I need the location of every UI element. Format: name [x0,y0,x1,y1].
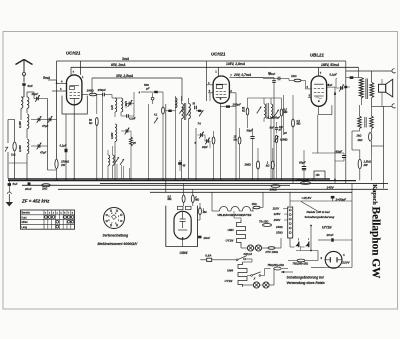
tube1 cathode lead [73,99,75,179]
wire [7,120,9,144]
resistor 25k osc [130,137,133,146]
coil mixer grid [175,98,177,108]
svg-text:100pF: 100pF [273,117,280,120]
wire right return [383,106,385,188]
resistor 2M eye [191,195,194,203]
lamp alt 2 [263,282,269,288]
svg-text:60µF: 60µF [336,149,343,153]
trimmer IF I a [179,107,183,113]
wire rail D [22,184,290,186]
wire [21,96,24,98]
heater meander upper [237,220,246,246]
wire [181,96,183,104]
wire [152,93,154,97]
svg-text:0,5MΩ: 0,5MΩ [280,139,288,142]
capacitor tone blob [344,86,347,88]
svg-text:0,1µF: 0,1µF [330,72,338,76]
voltage selector strip [288,207,293,238]
IF transformer II winding A [264,104,266,118]
svg-text:kΩ: kΩ [89,122,92,125]
wire [183,183,185,195]
resistor NTC heater [268,247,275,250]
resistor mains dropper [297,259,305,262]
svg-text:UBL21/UCH21/UCH21/UY1N: UBL21/UCH21/UCH21/UY1N [218,213,252,217]
capacitor 150pF [102,93,104,97]
svg-text:0,1µF: 0,1µF [60,144,67,148]
svg-text:105V, 2,8mA: 105V, 2,8mA [226,62,246,66]
svg-text:Meßinstrument 6000Ω/V: Meßinstrument 6000Ω/V [98,242,139,246]
svg-text:5nF: 5nF [28,84,34,88]
wire anode feed [56,61,58,159]
wire [247,98,249,108]
resistor 75+15 [263,224,272,227]
svg-text:2W: 2W [363,163,368,167]
output transformer primary [359,78,363,99]
wire rail 20V [236,77,263,79]
wire [288,260,297,262]
wire [166,110,175,112]
wire [272,148,274,161]
svg-text:100Ω: 100Ω [87,89,95,93]
wire [289,80,294,82]
trimmer mixer a [200,133,202,137]
input coil L2 [27,114,29,129]
wire [213,131,215,137]
capacitor 100pF AF [275,127,278,129]
wire [276,143,278,179]
resistor 150k 1W [55,159,58,169]
svg-text:NTC 100Ω: NTC 100Ω [266,250,278,254]
wire [111,95,113,99]
svg-text:X: X [253,277,256,281]
resistor 0.1M input [13,142,16,151]
oscillator coil C [115,124,117,142]
coil range table [21,210,75,229]
capacitor padder [168,110,171,112]
wire pointer [301,202,318,212]
svg-text:1kΩ: 1kΩ [291,74,297,78]
svg-text:pF: pF [278,130,282,132]
wire [195,128,197,179]
resistor 500k AVC [280,109,283,116]
wire rail C [100,183,388,185]
svg-text:Serienschaltung: Serienschaltung [103,234,129,238]
wire [26,129,28,138]
svg-text:4,1nF: 4,1nF [128,118,136,121]
svg-text:150: 150 [316,174,321,177]
svg-text:20nF: 20nF [326,233,334,237]
svg-text:kΩ: kΩ [234,139,237,142]
wire [276,122,278,128]
wire [182,239,184,246]
tube socket diagram [104,208,125,229]
svg-text:ZF = 452 kHz: ZF = 452 kHz [21,199,50,204]
wire taps [283,207,288,209]
input coil L3 [27,139,29,154]
svg-text:75Ω(2W)+15Ω: 75Ω(2W)+15Ω [268,264,284,267]
wire [310,226,312,251]
wire [346,77,350,79]
wire heater feed [212,210,220,212]
resistor 0.5M eye [182,195,185,203]
svg-text:pF: pF [145,86,150,90]
svg-text:20nF: 20nF [203,236,211,240]
wire magnet leads [381,79,383,84]
tube UBL21 output [311,76,327,106]
svg-text:5nF: 5nF [13,182,18,186]
wire [298,238,300,241]
oscillator coil E [113,155,115,166]
svg-text:MΩ: MΩ [297,123,301,126]
trimmer capacitor 20pF [36,97,38,101]
wire drop x206 [206,61,208,101]
wire x102 [102,95,104,179]
capacitor AVC blob [178,162,182,165]
svg-text:20pF: 20pF [31,92,39,96]
wire speaker bottom [372,105,393,107]
svg-text:Bellaphon GW: Bellaphon GW [370,207,382,280]
magic eye shield box [166,206,198,247]
svg-text:185V, 53mA: 185V, 53mA [321,63,340,67]
antenna coil primary [21,97,23,108]
wire drop x182 [181,78,183,101]
capacitor 4.1nF [126,114,128,118]
pin 5 lead tube3 [308,97,311,99]
wire [239,128,241,137]
wire [114,142,116,179]
tube UCH21 IF [213,76,229,103]
field coil B [370,116,374,129]
svg-text:3mA: 3mA [122,57,130,61]
wire [263,98,265,104]
wire [14,120,16,143]
resistor 15 Ohm [253,206,260,209]
svg-text:Verwendung eines Relais: Verwendung eines Relais [287,281,326,285]
svg-text:UCH21: UCH21 [66,51,81,56]
wire [162,92,164,107]
svg-text:16kΩ: 16kΩ [270,188,278,192]
svg-text:150pF: 150pF [98,88,107,92]
trimmer padder low [154,118,158,124]
wire rail 3mA [57,60,346,62]
svg-text:Schaltungsänderung bei: Schaltungsänderung bei [287,276,324,280]
wire [235,93,237,179]
svg-text:20pF: 20pF [201,146,208,149]
svg-text:5nF: 5nF [270,127,275,130]
wire [252,208,254,212]
wire [56,169,58,179]
trimmer IF I c [199,111,203,117]
svg-text:UCH21: UCH21 [211,52,226,57]
wire [311,267,325,269]
resistor 50k under tube1 [95,118,98,126]
svg-text:UM4: UM4 [180,251,189,255]
svg-text:5mA: 5mA [43,76,51,80]
wire rail E [58,188,388,190]
eye top electrodes [178,206,184,209]
resistor 1.5k 2W [358,159,361,169]
wire [65,114,67,149]
wire [273,78,275,81]
svg-text:UY1N: UY1N [225,279,234,283]
wire x210 [209,93,211,101]
output transformer core [365,79,367,100]
wire [199,203,201,208]
svg-text:150kΩ: 150kΩ [61,160,70,164]
svg-text:UBL21: UBL21 [310,53,324,58]
svg-text:0,6A: 0,6A [205,254,211,258]
speaker cone [386,79,393,97]
wire vertical x352 [351,183,353,240]
svg-text:Lang: Lang [22,226,28,229]
svg-text:UY1N: UY1N [226,239,235,243]
capacitor osc out [198,110,201,112]
pin 7 lead tube1 [70,67,72,75]
tube UCH21 mixer [67,75,82,105]
svg-text:35V, 2,5mA: 35V, 2,5mA [116,74,134,78]
resistor 0.5M grid leak [292,119,295,127]
wire [282,268,288,270]
speaker magnet [379,84,386,92]
svg-text:Kurz: Kurz [22,216,28,219]
wire [200,259,206,261]
wire [23,76,25,83]
oscillator coil B [121,98,123,112]
svg-text:Relais 100 Ω bei: Relais 100 Ω bei [307,210,330,214]
IF transformer II core [266,103,268,119]
wire [252,128,254,137]
wire [303,150,305,166]
wire [240,246,242,248]
trimmer mixer b [206,139,208,143]
node ground bump [7,192,11,194]
svg-text:2kΩ: 2kΩ [357,138,363,142]
tube2 cathode lead [220,103,222,178]
resistor 50k det [246,108,249,115]
svg-text:MΩ: MΩ [168,198,172,201]
wire top IF [248,97,282,99]
switch contact a [295,243,298,247]
field coil core [364,117,366,128]
wire [247,275,251,277]
svg-text:Bereich: Bereich [22,212,31,215]
wire drop x92 [91,78,93,95]
trimmer osc bottom b [120,159,124,165]
svg-text:1W: 1W [61,163,65,167]
svg-text:15Ω: 15Ω [252,202,258,206]
wire [263,78,278,80]
wire [179,160,181,162]
pin 7 lead tube3 [318,67,320,76]
antenna [16,60,25,65]
wire [245,258,252,260]
svg-text:7A: 7A [198,122,201,126]
svg-text:25: 25 [132,142,136,145]
pin 1 lead tube2 [217,67,219,76]
trimmer IF b [274,110,279,117]
wire [107,166,109,179]
node antenna terminal [23,73,26,76]
svg-text:1kΩ: 1kΩ [11,154,16,157]
wire [359,77,362,79]
switch contact b [305,243,308,247]
wire [196,110,204,112]
svg-text:0,900: 0,900 [18,145,22,152]
wire [197,236,200,238]
cathode resistor box [314,171,325,179]
wire [275,247,281,249]
wire x283 [282,95,284,135]
wire [359,150,361,159]
resistor 75 alt [274,267,282,270]
svg-text:Kapsch: Kapsch [371,184,378,205]
pin 3 lead tube3 [327,86,335,88]
output transformer secondary [370,83,374,98]
wire [22,184,27,186]
IF transformer I core [183,103,185,120]
pin 3 lead tube1 [52,90,67,92]
capacitor 5nF antenna [22,83,25,86]
wire [318,239,331,241]
svg-text:6V/0,1A: 6V/0,1A [244,253,253,256]
svg-text:2MΩ: 2MΩ [244,163,252,167]
trimmer IF I b [186,109,190,115]
heater filaments UBL21 UCH21 UCH21 [220,206,228,211]
wire x335 [334,87,336,183]
resistor 1M eye grid [199,208,202,215]
tube UM4 indicator [174,211,191,239]
ground chassis [8,194,10,202]
speaker terminal top [392,69,396,73]
svg-text:125V: 125V [274,212,282,216]
wire [292,95,294,119]
svg-text:0,900: 0,900 [111,132,114,139]
pin 4 lead tube1 [48,79,57,81]
trimmer input c [37,144,39,148]
pin 2 lead tube2 [229,92,236,94]
svg-text:47pF: 47pF [39,151,47,155]
svg-text:60µF: 60µF [299,161,306,165]
IF transformer II winding B [271,104,273,118]
svg-text:0,380: 0,380 [18,121,22,128]
trimmer osc mid [125,129,127,133]
wire [33,92,35,99]
svg-text:220V: 220V [341,260,350,264]
wire [26,154,28,179]
wire screen feed [289,192,291,206]
oscillator coil A [115,98,117,112]
svg-text:1kΩ: 1kΩ [42,187,48,191]
wire [141,91,154,93]
IF transformer I winding B [189,104,191,119]
svg-text:2kΩ: 2kΩ [356,133,362,137]
svg-text:U/Y1N: U/Y1N [322,226,332,230]
wire feedback [312,152,335,154]
wire [8,180,10,183]
wire [360,101,362,105]
speaker terminal bottom [392,104,396,108]
wire rail F [150,191,352,193]
resistor 1k rail [42,184,51,187]
lamp alt 1 [253,282,259,288]
capacitor 50pF IF I [194,106,196,110]
wire x123 [123,166,125,179]
wire [82,94,89,96]
svg-text:MΩ: MΩ [195,199,199,202]
resistor mixer 0.1M [212,137,215,144]
capacitor 20nF mains [331,238,334,241]
trimmer input b [48,118,50,122]
pin 1 lead tube1 [79,61,81,75]
trimmer IF a [257,107,262,114]
mains switch [236,259,238,261]
svg-text:75Ω(2W)+15Ω: 75Ω(2W)+15Ω [293,263,309,266]
wire x117 [116,164,118,179]
trimmer osc bottom a [115,157,119,163]
svg-text:≈15,5V: ≈15,5V [302,196,313,200]
wire rail 35V [92,77,182,79]
resistor 15k cathode2 [238,137,241,144]
svg-text:240Ω: 240Ω [275,225,283,229]
pin 7 lead tube2 [229,77,236,79]
oscillator coil D [108,155,110,166]
tube3 cathode lead [318,106,320,114]
wire [23,86,25,97]
svg-text:4,1: 4,1 [153,114,158,117]
resistor 2k hum [369,133,372,142]
svg-text:150V: 150V [274,218,282,222]
volume potentiometer 0.5M [275,135,278,143]
wire [112,97,121,99]
node a [310,225,312,227]
heater meander alt [238,262,247,287]
wire [96,126,98,179]
svg-text:20V, 0,7mA: 20V, 0,7mA [233,73,252,77]
svg-text:50µF: 50µF [247,129,254,133]
svg-text:45: 45 [182,165,186,168]
capacitor 20nF eye [198,236,201,239]
wire selector bottom [289,238,291,247]
svg-text:Mittel: Mittel [22,221,28,224]
wire rail 85V [71,66,359,68]
svg-text:150Ω: 150Ω [276,230,283,234]
wire cathode loop [319,114,332,116]
wire [257,148,259,161]
wire [260,284,263,286]
svg-text:UM4: UM4 [228,228,234,232]
wire drop x345 [345,61,347,183]
trimmer input a [37,118,39,122]
svg-text:20nF: 20nF [24,187,32,191]
resistor padder [162,107,165,114]
lamp dial 1 [247,245,253,251]
svg-text:5nF: 5nF [328,83,333,87]
wire [281,98,283,109]
IF transformer I winding A [182,104,184,119]
node b [310,250,312,252]
svg-text:0,20: 0,20 [111,105,114,110]
svg-text:MΩ: MΩ [203,211,207,214]
svg-text:kΩ: kΩ [242,111,245,113]
svg-text:145V: 145V [327,185,335,189]
svg-text:MΩ: MΩ [284,112,288,114]
svg-text:0,1µF: 0,1µF [268,117,275,120]
trimmer osc top [128,102,130,106]
pin 4 lead tube2 [207,84,214,86]
resistor 100 Ohm [90,93,97,96]
wire [336,87,341,89]
capacitor 5nF mains filter [8,183,11,186]
